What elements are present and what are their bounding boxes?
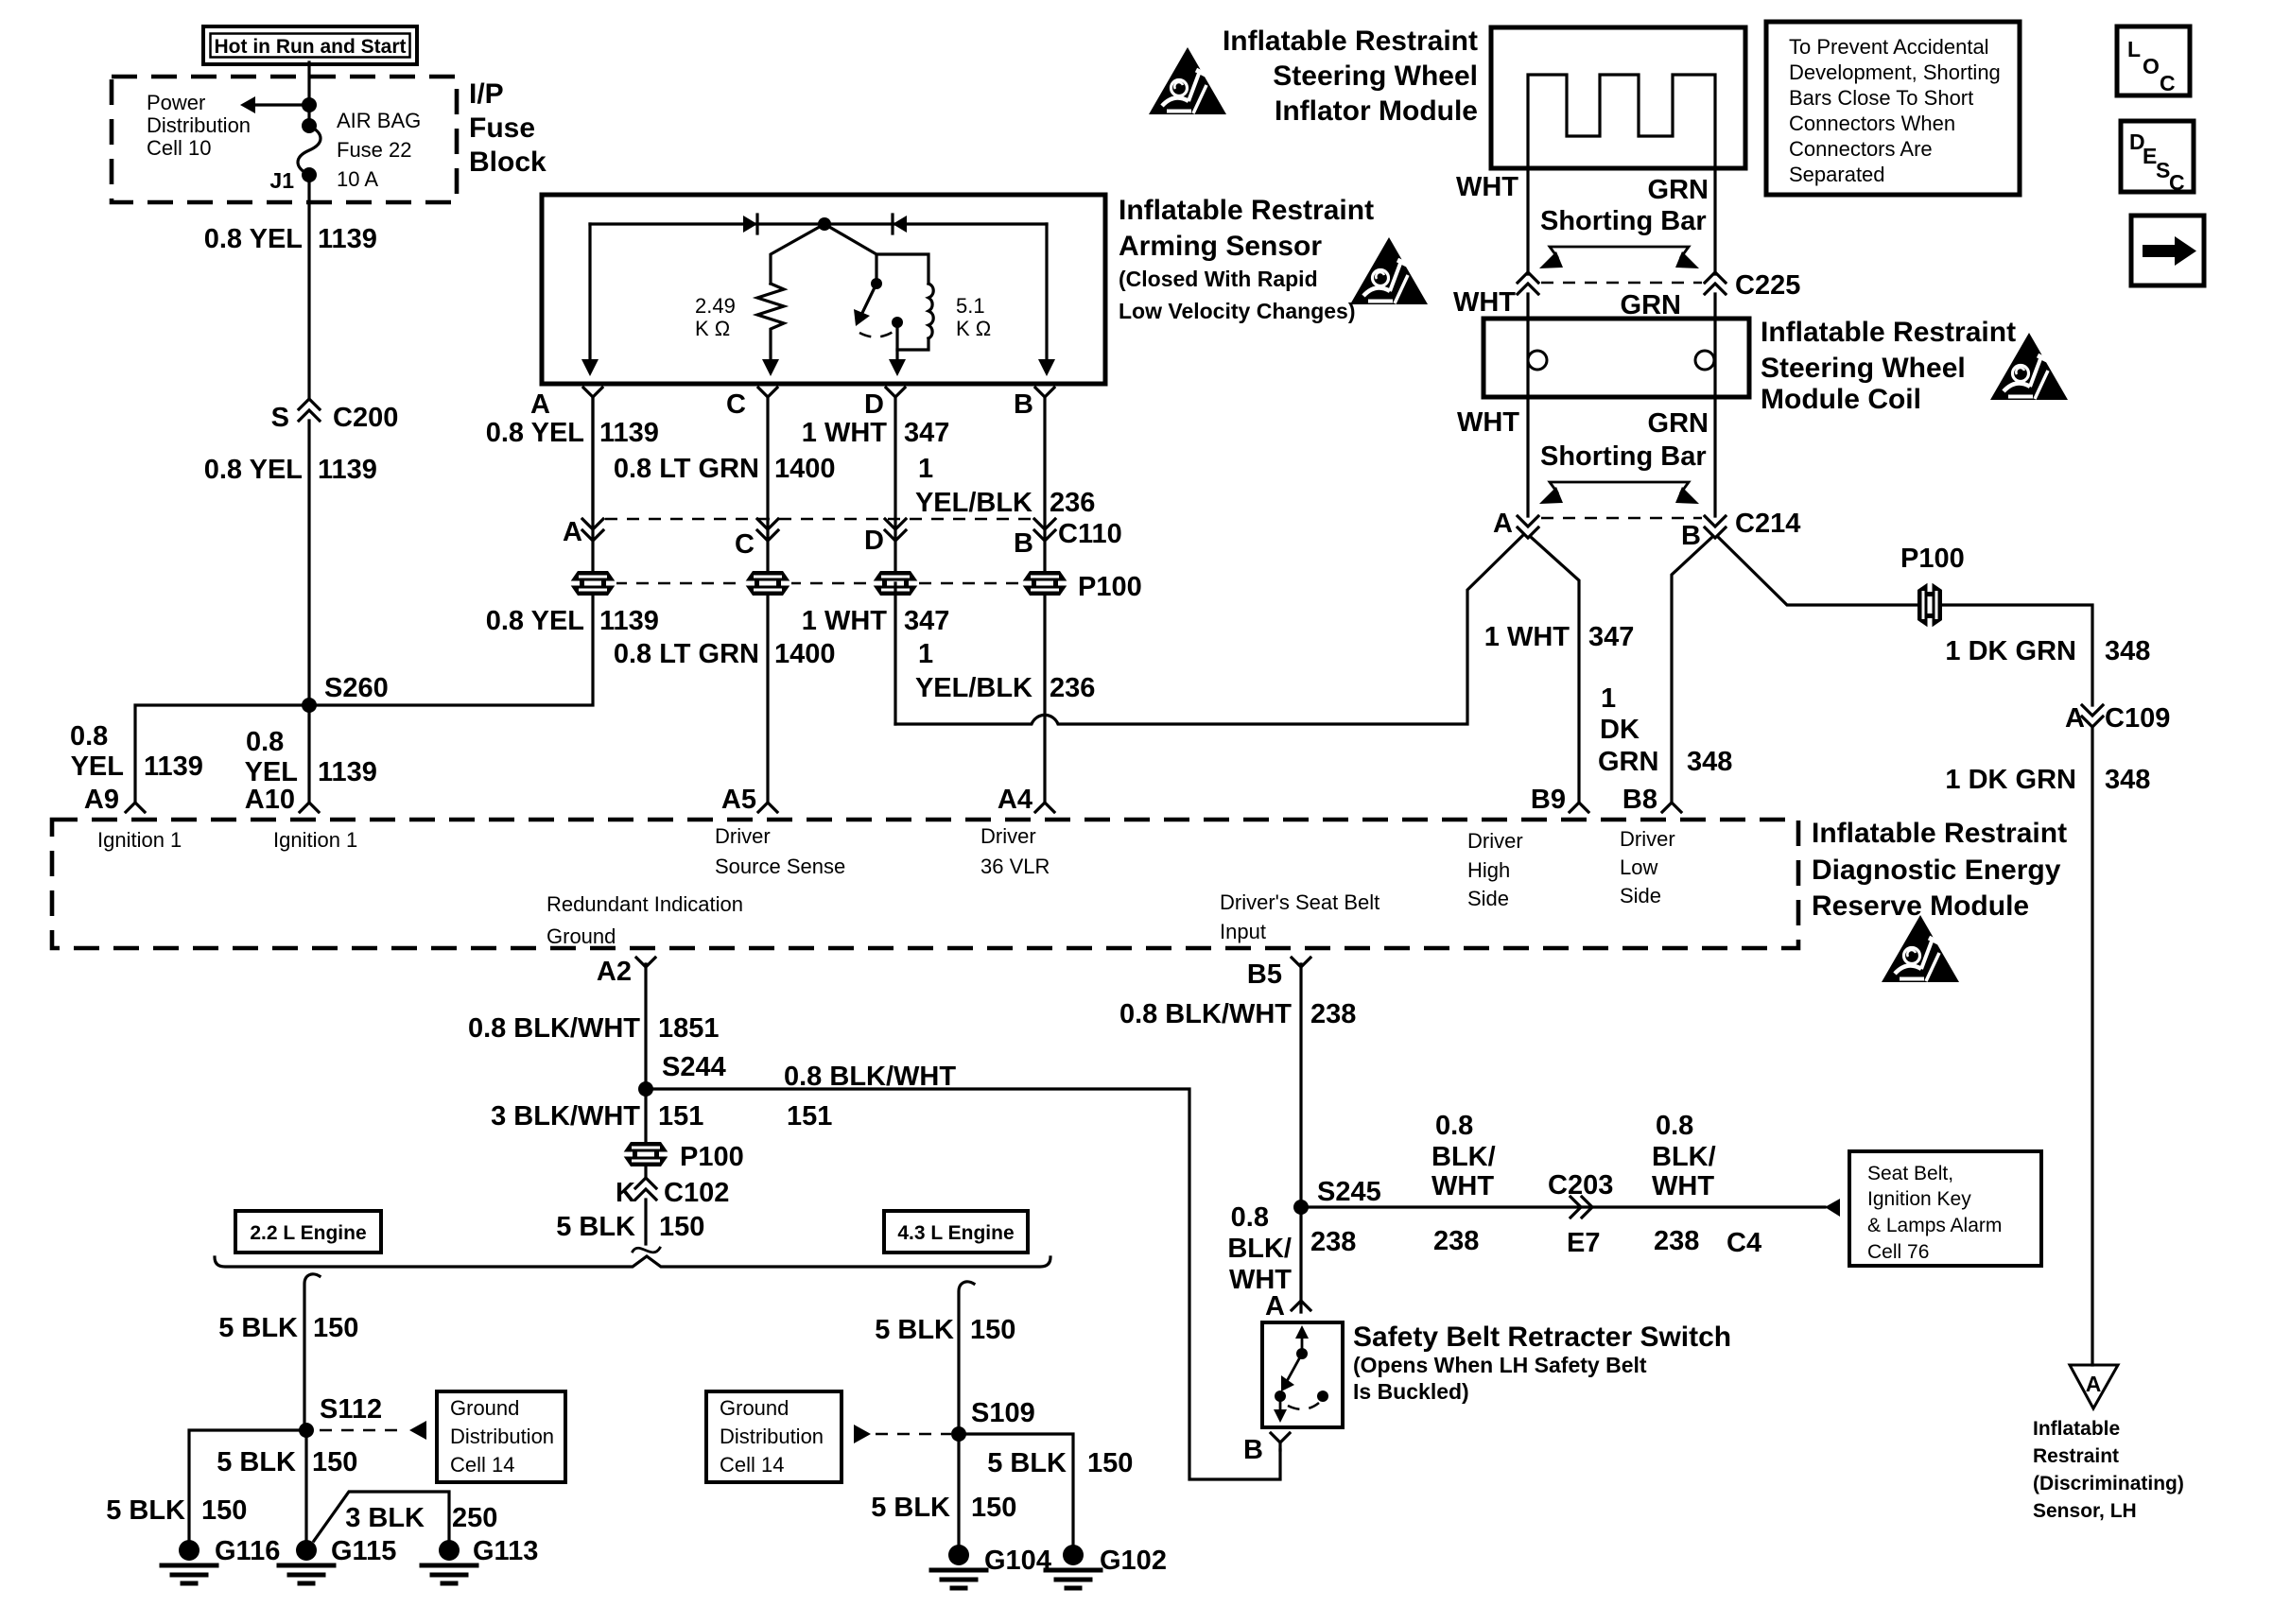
svg-text:WHT: WHT (1456, 172, 1518, 202)
svg-text:S245: S245 (1317, 1177, 1381, 1207)
wire GRN C225 to coil box (1713, 294, 1716, 516)
svg-text:3 BLK/WHT: 3 BLK/WHT (491, 1101, 640, 1132)
wire 4.3L engine ground leg (959, 1282, 974, 1434)
svg-text:348: 348 (1687, 747, 1732, 777)
switch blade (retracter) (1286, 1354, 1302, 1383)
svg-text:Inflatable Restraint: Inflatable Restraint (1761, 317, 2016, 348)
wire WHT C225 to coil box (1526, 294, 1529, 516)
svg-text:Steering Wheel: Steering Wheel (1761, 353, 1966, 384)
svg-text:5 BLK: 5 BLK (106, 1495, 185, 1526)
svg-text:Separated: Separated (1789, 163, 1885, 186)
inductor 5.1 KΩ coil (928, 284, 933, 338)
wire 2.2L engine ground leg (304, 1274, 320, 1430)
shorting bar bracket (lower) (1550, 482, 1689, 492)
svg-text:4.3 L Engine: 4.3 L Engine (897, 1222, 1014, 1244)
svg-text:347: 347 (904, 606, 949, 636)
svg-text:150: 150 (201, 1495, 247, 1526)
arrow into seat belt alarm (1825, 1199, 1840, 1217)
svg-text:3 BLK: 3 BLK (345, 1503, 425, 1533)
wire node to resistor (771, 224, 824, 284)
svg-text:DK: DK (1600, 715, 1640, 745)
svg-text:Bars Close To Short: Bars Close To Short (1789, 86, 1973, 110)
splice S245 (1293, 1200, 1309, 1215)
svg-text:Ignition 1: Ignition 1 (97, 828, 182, 852)
wire break squiggle (633, 1248, 660, 1253)
wire GRN inflator to C225 (1713, 168, 1716, 274)
dashed link Ground Distribution to S109 (854, 1425, 871, 1443)
wire G115 to G113 (3 BLK 250) (314, 1492, 449, 1541)
warning triangle (module coil) (1990, 333, 2068, 400)
svg-text:GRN: GRN (1648, 408, 1709, 439)
connector C203 chevrons (1570, 1197, 1581, 1218)
svg-text:Cell 14: Cell 14 (720, 1453, 784, 1477)
svg-text:C102: C102 (664, 1178, 729, 1208)
svg-text:To Prevent Accidental: To Prevent Accidental (1789, 35, 1989, 59)
splice S244 (638, 1081, 653, 1097)
sensor pin D (886, 388, 905, 397)
wire D column down (894, 583, 896, 724)
svg-text:E7: E7 (1567, 1228, 1600, 1258)
svg-text:Driver: Driver (1467, 829, 1523, 853)
svg-text:BLK/: BLK/ (1227, 1234, 1292, 1264)
svg-text:WHT: WHT (1431, 1171, 1494, 1201)
svg-text:151: 151 (658, 1101, 703, 1132)
box Ground Distribution Cell 14 (right) (706, 1391, 842, 1482)
svg-text:& Lamps Alarm: & Lamps Alarm (1867, 1215, 2002, 1236)
svg-text:YEL/BLK: YEL/BLK (915, 488, 1032, 518)
wire sensor B to C110 (1043, 397, 1046, 803)
splice S109 (951, 1426, 966, 1442)
svg-text:Module Coil: Module Coil (1761, 384, 1921, 415)
switch arrow up (1301, 1331, 1304, 1354)
svg-text:347: 347 (904, 418, 949, 448)
pin A5 chevron (758, 803, 777, 812)
grommet P100 on B wire (1021, 571, 1068, 596)
svg-text:C: C (2169, 170, 2185, 195)
svg-text:Inflatable Restraint: Inflatable Restraint (1119, 195, 1374, 226)
switch pivot dot (871, 278, 882, 289)
svg-text:G113: G113 (473, 1536, 538, 1566)
svg-text:151: 151 (787, 1101, 832, 1132)
svg-text:Side: Side (1620, 884, 1661, 907)
svg-text:238: 238 (1310, 1227, 1356, 1257)
pin B8 chevron (1662, 803, 1681, 812)
svg-text:348: 348 (2105, 765, 2150, 795)
wire fuse to C200 (307, 175, 310, 397)
switch right contact dot (1317, 1391, 1328, 1402)
svg-text:A5: A5 (721, 785, 756, 815)
B column interior (1045, 224, 1048, 369)
ground G115 (296, 1540, 317, 1561)
box 2.2 L Engine (235, 1211, 381, 1253)
svg-text:G115: G115 (331, 1536, 396, 1566)
svg-text:Fuse 22: Fuse 22 (337, 138, 412, 162)
sensor pin C (758, 388, 777, 397)
grommet P100 on DK GRN wire (1917, 581, 1942, 629)
connector C225 WHT chevrons (1518, 272, 1538, 283)
svg-text:K Ω: K Ω (956, 317, 991, 340)
fuse F22 element (squiggle) (302, 118, 317, 133)
svg-text:O: O (2143, 54, 2160, 78)
svg-text:A4: A4 (998, 785, 1032, 815)
grommet P100 on C wire (744, 571, 791, 596)
svg-text:Redundant Indication: Redundant Indication (547, 892, 743, 916)
svg-text:B5: B5 (1247, 959, 1282, 990)
svg-text:1139: 1139 (318, 455, 377, 485)
switch blade with arrowhead (862, 284, 876, 313)
svg-text:A: A (1265, 1291, 1285, 1322)
wire switch B stub (1278, 1443, 1281, 1450)
svg-text:G116: G116 (215, 1536, 280, 1566)
wire C214-B to P100 (DK GRN) (1719, 538, 2092, 705)
warning triangle (DERM) (1882, 915, 1959, 982)
switch contact dot (retracter) (1275, 1391, 1286, 1402)
svg-text:Inflatable Restraint: Inflatable Restraint (1223, 26, 1478, 57)
pin A4 chevron (1035, 803, 1054, 812)
warning triangle (inflator module) (1149, 47, 1226, 114)
svg-text:J1: J1 (269, 168, 294, 193)
connector C110 dashed line (605, 518, 1032, 521)
svg-text:Diagnostic Energy: Diagnostic Energy (1812, 855, 2061, 886)
svg-text:A: A (2065, 703, 2085, 734)
svg-text:B9: B9 (1531, 785, 1566, 815)
junction dot at arrow (302, 97, 317, 112)
svg-text:0.8 YEL: 0.8 YEL (486, 418, 584, 448)
svg-text:A10: A10 (245, 785, 295, 815)
svg-text:S260: S260 (324, 673, 389, 703)
wire coil branch top (876, 254, 928, 284)
svg-text:A9: A9 (84, 785, 119, 815)
svg-text:G102: G102 (1100, 1546, 1167, 1576)
svg-text:Inflator Module: Inflator Module (1275, 95, 1478, 127)
svg-text:B: B (1014, 528, 1033, 559)
svg-text:36 VLR: 36 VLR (980, 855, 1050, 878)
LOC reference box (2117, 26, 2190, 95)
svg-text:Restraint: Restraint (2033, 1445, 2119, 1467)
svg-text:YEL: YEL (245, 757, 298, 787)
svg-text:Cell 10: Cell 10 (147, 136, 211, 160)
wire S109 to G102 (959, 1434, 1073, 1545)
svg-text:C225: C225 (1735, 270, 1800, 301)
pin A9 chevron (126, 803, 145, 812)
switch fixed contact dot (892, 317, 903, 328)
svg-text:P100: P100 (680, 1142, 744, 1172)
svg-text:Block: Block (469, 147, 547, 178)
switch dashed arc (859, 331, 894, 337)
svg-text:0.8 YEL: 0.8 YEL (204, 224, 303, 254)
pin B5 chevron (1292, 958, 1310, 967)
svg-text:BLK/: BLK/ (1652, 1142, 1716, 1172)
sensor internal node (818, 217, 831, 231)
svg-text:1139: 1139 (318, 757, 377, 787)
svg-text:0.8 BLK/WHT: 0.8 BLK/WHT (1119, 999, 1292, 1029)
svg-text:5 BLK: 5 BLK (217, 1447, 296, 1477)
squib element (square wave) (1528, 75, 1715, 168)
svg-text:Connectors Are: Connectors Are (1789, 137, 1933, 161)
wire sensor D to C110 (894, 397, 896, 586)
engine option brace (215, 1256, 1050, 1267)
connector C110 pin B (1034, 519, 1055, 529)
wire C214-A to B9 (1 WHT 347) (1532, 538, 1579, 803)
svg-text:Arming Sensor: Arming Sensor (1119, 231, 1322, 262)
switch down arrow (1279, 1396, 1282, 1415)
svg-text:GRN: GRN (1598, 747, 1658, 777)
svg-text:A: A (563, 517, 582, 547)
connector C225 dashed line (1541, 282, 1702, 285)
box Seat Belt Ignition Key Lamps Alarm Cell 76 (1849, 1151, 2041, 1266)
wire S244 to P100 (644, 1089, 647, 1178)
svg-text:236: 236 (1050, 673, 1095, 703)
svg-text:250: 250 (452, 1503, 497, 1533)
svg-text:K Ω: K Ω (695, 317, 730, 340)
svg-text:High: High (1467, 858, 1510, 882)
wire S260 right branch to arming sensor A column (309, 397, 593, 705)
svg-text:Steering Wheel: Steering Wheel (1273, 60, 1478, 92)
svg-text:1 DK GRN: 1 DK GRN (1945, 636, 2076, 666)
splice S260 (302, 698, 317, 713)
pin B chevron (retracter switch) (1271, 1433, 1290, 1443)
svg-text:0.8 BLK/WHT: 0.8 BLK/WHT (784, 1062, 956, 1092)
svg-text:Distribution: Distribution (147, 113, 251, 137)
wire S245 to alarm (0.8 BLK/WHT 238) (1301, 1205, 1825, 1208)
svg-text:G104: G104 (984, 1546, 1051, 1576)
svg-text:K: K (616, 1178, 635, 1208)
sensor pin A (583, 388, 602, 397)
svg-text:WHT: WHT (1652, 1171, 1714, 1201)
svg-text:S244: S244 (662, 1052, 726, 1082)
A exit arrow (581, 359, 599, 376)
svg-text:150: 150 (313, 1313, 358, 1343)
wire S244 to retracter switch B (0.8 BLK/WHT 151) (646, 1089, 1280, 1479)
wire S260 left branch to A9 (135, 705, 309, 803)
svg-text:5 BLK: 5 BLK (987, 1448, 1067, 1478)
svg-text:1139: 1139 (599, 606, 659, 636)
wire node to switch (824, 224, 876, 281)
svg-text:236: 236 (1050, 488, 1095, 518)
svg-text:Sensor, LH: Sensor, LH (2033, 1500, 2137, 1522)
next-page arrow box (2131, 216, 2204, 285)
resistor 2.49 KΩ zigzag (757, 284, 784, 369)
svg-text:0.8 YEL: 0.8 YEL (486, 606, 584, 636)
svg-text:0.8: 0.8 (1231, 1202, 1269, 1233)
connector C214 pin A chevrons (1518, 516, 1538, 527)
svg-text:0.8: 0.8 (70, 721, 108, 752)
svg-text:C: C (735, 529, 755, 560)
svg-text:GRN: GRN (1648, 175, 1709, 205)
grommet P100 on D wire (872, 571, 919, 596)
svg-text:1139: 1139 (318, 224, 377, 254)
svg-text:C110: C110 (1058, 519, 1122, 549)
svg-text:A: A (2086, 1372, 2102, 1396)
ground G113 (439, 1540, 460, 1561)
warning triangle (arming sensor) (1350, 237, 1428, 304)
svg-text:BLK/: BLK/ (1431, 1142, 1496, 1172)
svg-text:Inflatable: Inflatable (2033, 1418, 2120, 1440)
svg-text:1400: 1400 (774, 639, 836, 669)
svg-text:5.1: 5.1 (956, 294, 985, 318)
svg-text:Source Sense: Source Sense (715, 855, 845, 878)
svg-text:348: 348 (2105, 636, 2150, 666)
svg-text:GRN: GRN (1621, 290, 1681, 320)
svg-text:Ground: Ground (547, 924, 616, 948)
ground G116 (179, 1540, 200, 1561)
svg-text:1 WHT: 1 WHT (1484, 622, 1570, 652)
wire A2 to S244 (644, 964, 647, 1089)
svg-text:S: S (271, 403, 289, 433)
shorting bar bracket (upper) (1550, 247, 1689, 257)
svg-text:5 BLK: 5 BLK (875, 1315, 954, 1345)
diode CR1 (left, pointing right) (743, 216, 757, 233)
svg-text:B8: B8 (1622, 785, 1657, 815)
svg-text:C109: C109 (2105, 703, 2170, 734)
wire WHT inflator to C225 (1526, 168, 1529, 274)
note box (shorting bars) (1766, 22, 2020, 195)
coil contact circle (WHT) (1528, 351, 1547, 370)
svg-text:Distribution: Distribution (450, 1425, 554, 1448)
svg-text:P100: P100 (1078, 572, 1142, 602)
svg-text:Side: Side (1467, 887, 1509, 910)
svg-text:150: 150 (312, 1447, 357, 1477)
svg-text:A2: A2 (597, 957, 632, 987)
svg-text:1 WHT: 1 WHT (802, 606, 888, 636)
svg-text:Seat Belt,: Seat Belt, (1867, 1163, 1953, 1184)
wire sensor A to C110 (591, 397, 594, 519)
DERM module dashed box (52, 820, 1798, 948)
arrow to Power Distribution Cell 10 (253, 103, 309, 106)
svg-text:1139: 1139 (599, 418, 659, 448)
B exit arrow (1038, 359, 1055, 376)
wire sensor C to A5 (766, 397, 769, 803)
svg-text:238: 238 (1310, 999, 1356, 1029)
wire S260 to A10 (307, 705, 310, 803)
svg-text:5 BLK: 5 BLK (218, 1313, 298, 1343)
svg-text:L: L (2127, 37, 2141, 61)
wire S112 to G116 (189, 1430, 306, 1540)
svg-text:0.8: 0.8 (246, 727, 284, 757)
svg-text:347: 347 (1588, 622, 1634, 652)
svg-text:150: 150 (1087, 1448, 1133, 1478)
power feed box 'Hot in Run and Start' (203, 26, 417, 64)
connector C110 pin A (582, 519, 603, 529)
discriminating sensor triangle (2070, 1365, 2118, 1408)
splice S112 (299, 1423, 314, 1438)
svg-text:Cell 76: Cell 76 (1867, 1241, 1929, 1263)
svg-text:WHT: WHT (1457, 407, 1519, 438)
wire S245 to retracter switch A (1299, 1207, 1302, 1312)
wire coil bottom to D column (897, 338, 928, 350)
svg-text:5 BLK: 5 BLK (556, 1212, 635, 1242)
svg-text:Ignition Key: Ignition Key (1867, 1188, 1971, 1210)
svg-text:B: B (1681, 521, 1701, 551)
svg-text:(Closed With Rapid: (Closed With Rapid (1119, 267, 1318, 291)
svg-text:Ground: Ground (720, 1396, 789, 1420)
box Ground Distribution Cell 14 (left) (437, 1391, 565, 1482)
connector C225 GRN chevrons (1705, 272, 1726, 283)
svg-text:Inflatable Restraint: Inflatable Restraint (1812, 818, 2067, 849)
svg-text:5 BLK: 5 BLK (871, 1493, 950, 1523)
connector C110 pin C (757, 519, 778, 529)
D exit arrow (889, 359, 906, 376)
svg-text:Connectors When: Connectors When (1789, 112, 1955, 135)
svg-text:D: D (864, 389, 884, 420)
svg-text:150: 150 (970, 1315, 1015, 1345)
wire C214-B to B8 (1 DK GRN 348) (1672, 538, 1711, 803)
svg-text:Shorting Bar: Shorting Bar (1540, 441, 1707, 472)
svg-text:1: 1 (1601, 683, 1616, 714)
svg-text:Driver's Seat Belt: Driver's Seat Belt (1220, 890, 1379, 914)
svg-text:1851: 1851 (658, 1013, 720, 1044)
svg-text:150: 150 (971, 1493, 1016, 1523)
svg-text:150: 150 (659, 1212, 704, 1242)
svg-text:0.8 BLK/WHT: 0.8 BLK/WHT (468, 1013, 640, 1044)
svg-text:I/P: I/P (469, 78, 504, 110)
svg-text:YEL: YEL (71, 752, 124, 782)
svg-text:0.8 LT GRN: 0.8 LT GRN (614, 639, 759, 669)
svg-text:Low Velocity Changes): Low Velocity Changes) (1119, 299, 1356, 323)
svg-text:Cell 14: Cell 14 (450, 1453, 514, 1477)
ground G104 (948, 1545, 969, 1565)
svg-text:Power: Power (147, 91, 205, 114)
dashed link S112 to Ground Distribution (320, 1429, 405, 1432)
A column interior (588, 224, 591, 369)
connector C109 chevrons (2082, 705, 2103, 716)
svg-text:2.2 L Engine: 2.2 L Engine (250, 1222, 366, 1244)
svg-text:0.8: 0.8 (1435, 1111, 1473, 1141)
connector C102 chevrons (635, 1178, 656, 1188)
svg-text:C203: C203 (1548, 1170, 1613, 1201)
pin A10 chevron (300, 803, 319, 812)
svg-text:Hot in Run and Start: Hot in Run and Start (215, 36, 407, 58)
grommet P100 dashed line (615, 582, 1026, 585)
svg-text:(Opens When LH Safety Belt: (Opens When LH Safety Belt (1353, 1353, 1647, 1377)
svg-text:S109: S109 (971, 1398, 1035, 1428)
grommet P100 on A wire (569, 571, 616, 596)
resistor exit arrow (762, 359, 779, 376)
svg-text:Driver: Driver (980, 824, 1036, 848)
svg-text:(Discriminating): (Discriminating) (2033, 1473, 2184, 1494)
wire from Hot box into fuse block (307, 62, 310, 126)
svg-text:Input: Input (1220, 920, 1266, 943)
connector C214 dashed line (1541, 517, 1702, 520)
wire B5 to S245 (1299, 964, 1302, 1207)
safety belt retracter switch box (1262, 1322, 1343, 1427)
svg-text:0.8 LT GRN: 0.8 LT GRN (614, 454, 759, 484)
svg-text:238: 238 (1654, 1226, 1699, 1256)
svg-text:C: C (2160, 71, 2176, 95)
wire 1 WHT 347 run to C214-A (hop over B column) (895, 536, 1522, 724)
svg-text:D: D (864, 526, 884, 556)
connector C214 pin B chevrons (1705, 516, 1726, 527)
pin A chevron (retracter switch) (1292, 1301, 1310, 1310)
wire S112 to G115 (304, 1430, 307, 1540)
svg-text:YEL/BLK: YEL/BLK (915, 673, 1032, 703)
connector C110 pin D (885, 519, 906, 529)
svg-text:Is Buckled): Is Buckled) (1353, 1379, 1469, 1404)
svg-text:C4: C4 (1726, 1228, 1761, 1258)
svg-text:Ignition 1: Ignition 1 (273, 828, 357, 852)
coil contact circle (GRN) (1695, 351, 1714, 370)
svg-text:Shorting Bar: Shorting Bar (1540, 206, 1707, 236)
svg-text:1: 1 (918, 454, 933, 484)
svg-text:Driver: Driver (1620, 827, 1675, 851)
arming sensor box (542, 195, 1105, 384)
svg-text:238: 238 (1433, 1226, 1479, 1256)
svg-text:1139: 1139 (144, 752, 203, 782)
grommet P100 (floor pan) (622, 1142, 669, 1166)
svg-text:10 A: 10 A (337, 167, 378, 191)
svg-text:C200: C200 (333, 403, 398, 433)
svg-text:S112: S112 (320, 1394, 382, 1425)
